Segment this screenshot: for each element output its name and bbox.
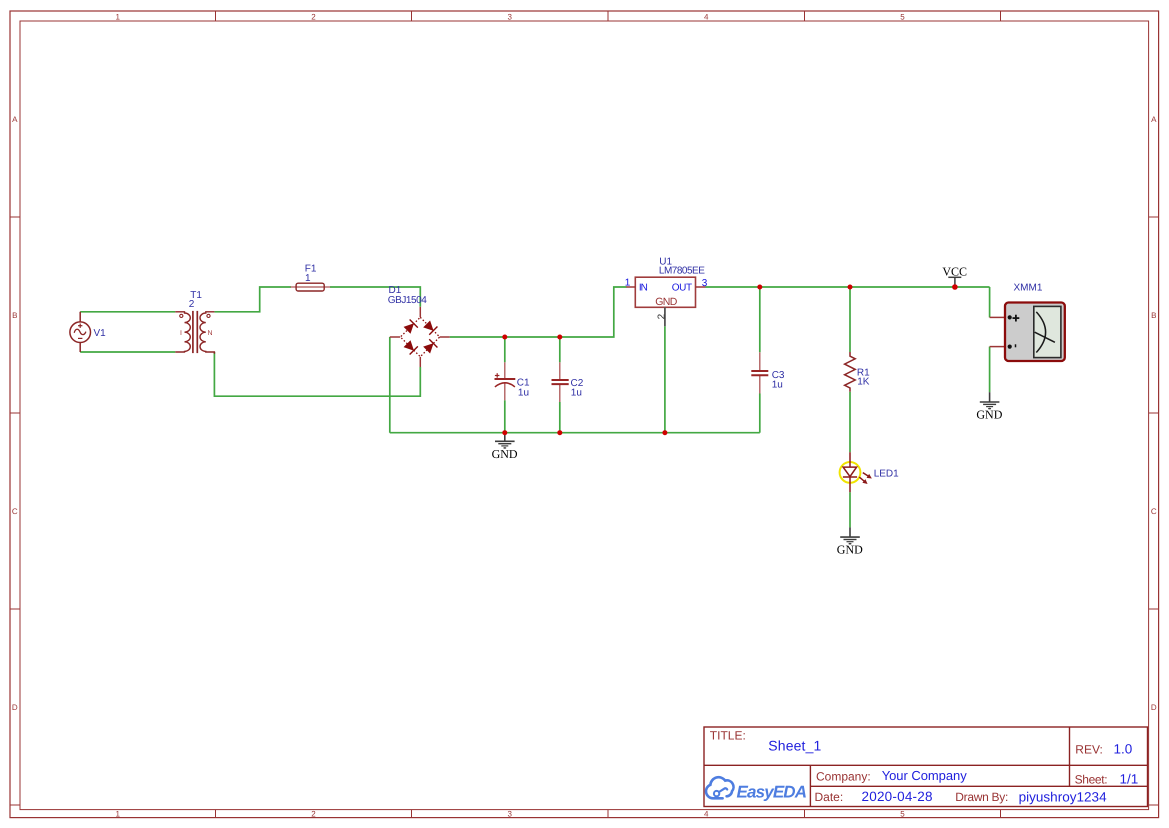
svg-text:1K: 1K — [857, 377, 870, 388]
junction C3 top — [757, 285, 762, 290]
junction C1 bottom — [502, 430, 507, 435]
svg-text:EasyEDA: EasyEDA — [737, 782, 808, 801]
svg-text:IN: IN — [639, 283, 648, 294]
wire C3 top — [759, 287, 761, 352]
svg-text:1: 1 — [305, 273, 311, 284]
svg-text:Sheet:: Sheet: — [1075, 772, 1108, 786]
svg-text:1/1: 1/1 — [1120, 771, 1139, 786]
svg-text:Date:: Date: — [815, 790, 844, 804]
svg-text:5: 5 — [900, 809, 905, 818]
svg-text:B: B — [1151, 311, 1156, 320]
wire C2 top — [559, 337, 561, 362]
wire bridge D1 right to U1 IN — [450, 287, 627, 337]
voltage source V1 — [70, 312, 91, 352]
wire XMM1 minus to ground — [989, 347, 991, 393]
resistor R1 — [845, 352, 856, 392]
wire R1 bottom to LED1 — [849, 392, 851, 452]
svg-text:A: A — [1151, 115, 1157, 124]
svg-text:REV:: REV: — [1075, 743, 1103, 757]
wire V1 top to T1 primary top — [80, 311, 175, 313]
svg-text:1u: 1u — [772, 379, 783, 390]
wire U1 GND pin to ground bus — [664, 326, 666, 432]
svg-text:I: I — [180, 330, 182, 337]
junction C1 top — [502, 335, 507, 340]
svg-text:B: B — [12, 311, 17, 320]
svg-text:1: 1 — [115, 13, 120, 22]
svg-text:4: 4 — [704, 809, 709, 818]
ground symbol under XMM1 — [980, 392, 1000, 409]
svg-text:1: 1 — [115, 809, 120, 818]
fuse F1 — [291, 283, 331, 291]
wire C3 bottom — [759, 394, 761, 433]
regulator U1 — [626, 277, 705, 326]
svg-text:GND: GND — [655, 296, 677, 308]
svg-text:2: 2 — [311, 13, 316, 22]
svg-text:D: D — [12, 703, 18, 712]
junction C2 bottom — [557, 430, 562, 435]
svg-text:2: 2 — [656, 313, 667, 319]
junction R1 top — [848, 285, 853, 290]
svg-text:3: 3 — [507, 13, 512, 22]
ground symbol under C1 — [495, 433, 515, 449]
capacitor C2 — [552, 362, 569, 402]
svg-text:2020-04-28: 2020-04-28 — [862, 789, 933, 804]
ground symbol under LED1 — [840, 527, 860, 544]
wire C1 top — [504, 337, 506, 362]
svg-text:GBJ1504: GBJ1504 — [388, 295, 427, 306]
svg-text:Company:: Company: — [816, 770, 871, 784]
svg-text:GND: GND — [837, 543, 863, 557]
wire C1 bottom — [504, 400, 506, 432]
junction C2 top — [557, 335, 562, 340]
multimeter XMM1 — [990, 303, 1065, 362]
svg-text:LM7805EE: LM7805EE — [659, 266, 705, 277]
wire U1 OUT to VCC rail — [706, 286, 990, 288]
svg-text:Your Company: Your Company — [882, 768, 968, 783]
junction U1 GND at bus — [662, 430, 667, 435]
wire VCC rail down to XMM1 plus — [989, 287, 991, 317]
wire V1 bottom to T1 primary bottom — [80, 351, 175, 353]
svg-text:1.0: 1.0 — [1114, 742, 1133, 757]
transformer T1 — [175, 311, 214, 354]
svg-text:5: 5 — [900, 13, 905, 22]
svg-text:1u: 1u — [571, 387, 582, 398]
capacitor C1 — [495, 362, 516, 400]
power symbol VCC — [948, 277, 961, 287]
svg-text:LED1: LED1 — [874, 468, 899, 479]
svg-text:XMM1: XMM1 — [1014, 283, 1043, 294]
svg-text:2: 2 — [189, 299, 195, 310]
svg-text:GND: GND — [976, 408, 1002, 422]
svg-text:N: N — [208, 330, 213, 337]
svg-text:2: 2 — [311, 809, 316, 818]
svg-text:OUT: OUT — [672, 283, 692, 294]
svg-text:C: C — [12, 507, 18, 516]
svg-text:A: A — [12, 115, 18, 124]
wire ground bus — [390, 432, 760, 434]
svg-text:VCC: VCC — [942, 264, 967, 278]
junction VCC tap — [952, 284, 958, 290]
svg-text:3: 3 — [702, 278, 708, 289]
wire R1 top — [849, 287, 851, 352]
wire LED1 to ground — [849, 492, 851, 527]
svg-text:C: C — [1151, 507, 1157, 516]
wire C2 bottom — [559, 402, 561, 433]
capacitor C3 — [751, 352, 768, 393]
svg-text:TITLE:: TITLE: — [710, 728, 746, 742]
svg-text:1u: 1u — [518, 387, 529, 398]
svg-text:D: D — [1151, 703, 1157, 712]
svg-text:GND: GND — [492, 447, 518, 461]
wire bridge D1 left to ground bus — [389, 337, 391, 433]
svg-text:Drawn By:: Drawn By: — [955, 790, 1008, 804]
svg-text:Sheet_1: Sheet_1 — [768, 738, 821, 754]
LED LED1 — [840, 452, 874, 492]
svg-text:1: 1 — [625, 278, 631, 289]
svg-text:piyushroy1234: piyushroy1234 — [1019, 789, 1107, 804]
wire F1 to bridge D1 top — [330, 287, 420, 307]
bridge rectifier D1 — [390, 307, 450, 367]
svg-text:3: 3 — [507, 809, 512, 818]
svg-text:4: 4 — [704, 13, 709, 22]
wire T1 secondary bottom to bridge D1 bottom — [214, 352, 420, 396]
svg-text:V1: V1 — [94, 328, 107, 339]
wire T1 secondary top to fuse F1 — [214, 287, 291, 312]
